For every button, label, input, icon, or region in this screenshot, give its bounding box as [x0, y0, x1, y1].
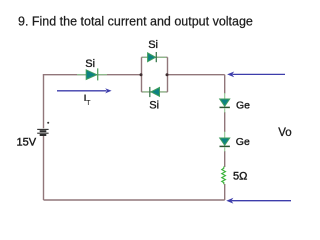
svg-text:15V: 15V [17, 136, 37, 148]
svg-text:Ge: Ge [236, 100, 250, 112]
svg-text:T: T [86, 98, 91, 107]
svg-text:5Ω: 5Ω [233, 170, 247, 182]
svg-text:Vo: Vo [278, 127, 291, 139]
svg-text:Si: Si [85, 58, 95, 70]
svg-text:Si: Si [149, 100, 159, 112]
svg-text:9. Find the total current and: 9. Find the total current and output vol… [18, 15, 253, 29]
svg-text:Si: Si [148, 39, 158, 51]
svg-text:Ge: Ge [236, 136, 250, 148]
